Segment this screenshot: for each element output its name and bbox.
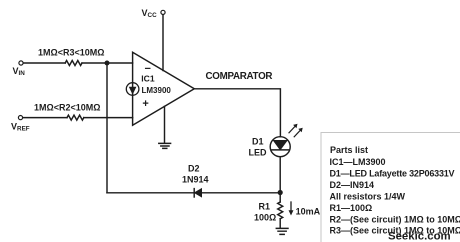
wire junction down to D2 line xyxy=(106,63,108,193)
ground under op-amp xyxy=(159,143,171,148)
LED D1 xyxy=(270,137,290,157)
svg-text:R2—(See circuit) 1MΩ to 10MΩ: R2—(See circuit) 1MΩ to 10MΩ xyxy=(330,215,460,225)
LED D1 light arrows xyxy=(289,124,302,137)
node VCC terminal xyxy=(161,10,165,14)
svg-text:VREF: VREF xyxy=(11,122,30,133)
parts list box xyxy=(321,133,460,242)
wire VIN to R3 xyxy=(23,62,65,64)
svg-text:VIN: VIN xyxy=(13,66,26,77)
svg-text:D2—IN914: D2—IN914 xyxy=(330,180,375,190)
current source symbol inside op-amp xyxy=(126,83,139,96)
svg-text:LM3900: LM3900 xyxy=(142,86,172,95)
wire VCC down to op-amp xyxy=(162,15,164,71)
resistor R2 xyxy=(67,115,84,120)
svg-text:IC1—LM3900: IC1—LM3900 xyxy=(330,157,386,167)
parts list text xyxy=(330,145,460,236)
svg-text:R1: R1 xyxy=(259,202,271,212)
node VREF terminal xyxy=(18,116,22,120)
svg-text:100Ω: 100Ω xyxy=(254,213,276,223)
wire R2 to op-amp input xyxy=(84,117,133,119)
wire VREF to R2 xyxy=(23,117,67,119)
svg-text:COMPARATOR: COMPARATOR xyxy=(206,71,273,82)
svg-text:All resistors 1/4W: All resistors 1/4W xyxy=(330,192,406,202)
svg-text:D2: D2 xyxy=(188,164,200,174)
node junction D2/LED/R1 xyxy=(278,190,283,195)
diode D2 xyxy=(193,189,195,197)
svg-text:10mA: 10mA xyxy=(296,207,321,217)
wire R1 to ground xyxy=(279,219,281,228)
svg-text:+: + xyxy=(142,98,148,110)
wire op-amp to ground xyxy=(164,106,166,143)
svg-text:VCC: VCC xyxy=(142,8,158,19)
op-amp U1 triangle xyxy=(133,52,195,125)
current arrow 10mA xyxy=(289,202,293,215)
svg-text:1N914: 1N914 xyxy=(182,175,209,185)
svg-text:R1—100Ω: R1—100Ω xyxy=(330,203,373,213)
svg-text:D1: D1 xyxy=(252,137,264,147)
ground below R1 xyxy=(276,228,288,234)
svg-text:Seekic.com: Seekic.com xyxy=(388,230,451,242)
resistor R3 xyxy=(65,61,82,66)
resistor R1 xyxy=(278,202,283,219)
node VIN terminal xyxy=(19,61,23,65)
svg-text:1MΩ<R3<10MΩ: 1MΩ<R3<10MΩ xyxy=(38,48,104,58)
svg-text:1MΩ<R2<10MΩ: 1MΩ<R2<10MΩ xyxy=(34,103,100,113)
wire op-amp output xyxy=(194,89,280,137)
wire LED to R1 junction xyxy=(279,157,281,202)
node junction VIN/R3/D2 xyxy=(105,61,110,66)
wire D2 line xyxy=(107,192,194,194)
svg-text:IC1: IC1 xyxy=(141,73,155,83)
wire R3 to op-amp input xyxy=(82,62,133,64)
svg-text:LED: LED xyxy=(249,148,268,158)
svg-text:Parts list: Parts list xyxy=(330,145,368,155)
svg-text:D1—LED Lafayette 32P06331V: D1—LED Lafayette 32P06331V xyxy=(330,169,455,179)
